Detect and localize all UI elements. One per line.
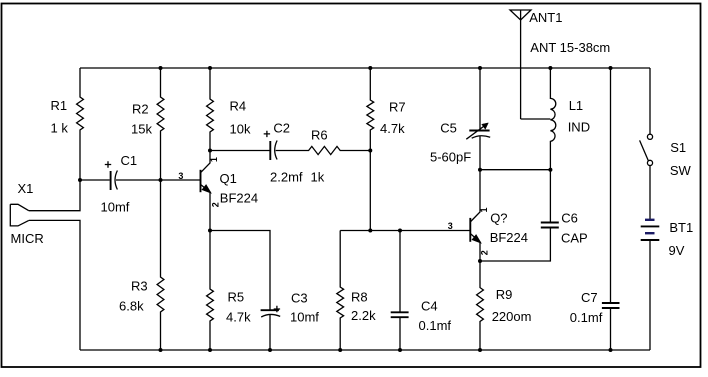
svg-text:0.1mf: 0.1mf [570,310,603,325]
node junction at (610.5,68) [609,66,613,70]
node junction at (210,150.5) [208,149,212,153]
svg-text:C3: C3 [291,290,308,305]
switch S1 [640,68,653,220]
wire node(210,150.5) to C2 [210,150,270,152]
node junction at (370.3,68) [368,66,372,70]
svg-text:ANT 15-38cm: ANT 15-38cm [530,40,610,55]
svg-text:1: 1 [209,157,219,162]
node junction at (210,350) [208,348,212,352]
svg-text:1k: 1k [311,170,325,185]
svg-text:C2: C2 [273,121,290,136]
wire X1 top lead [29,180,80,211]
capacitor C7 [602,68,620,350]
node junction at (610.5,350) [609,348,613,352]
svg-text:4.7k: 4.7k [380,121,405,136]
svg-text:C7: C7 [581,290,598,305]
wire bottom ground rail [80,349,650,351]
svg-text:2.2mf: 2.2mf [270,170,303,185]
wire C1 to node(160.5,180) [116,179,161,181]
svg-text:R5: R5 [228,289,245,304]
svg-text:R6: R6 [311,127,328,142]
svg-text:10mf: 10mf [290,309,319,324]
svg-text:1 k: 1 k [51,121,69,136]
resistor R9 [477,261,484,350]
wire top supply rail [80,67,650,69]
node junction at (160.5,180) [159,178,163,182]
resistor R6 [276,146,371,154]
svg-text:S1: S1 [670,140,686,155]
node junction at (160.5,68) [159,66,163,70]
svg-text:BT1: BT1 [669,220,693,235]
battery BT1 [641,220,660,350]
svg-text:R9: R9 [496,287,513,302]
node junction at (370.3,230.5) [368,229,372,233]
svg-text:C4: C4 [421,298,438,313]
resistor R4 [207,68,214,151]
wire R7 column down to base row [369,151,371,231]
node junction at (160.5,350) [159,348,163,352]
svg-text:Q1: Q1 [220,171,237,186]
svg-text:10k: 10k [230,121,251,136]
antenna ANT1 [510,10,550,119]
wire tank node row C5 to L1 [480,169,550,171]
svg-text:6.8k: 6.8k [119,298,144,313]
transistor Q1 [201,151,212,231]
microphone X1 symbol [10,204,29,226]
node junction at (480,261) [478,259,482,263]
svg-text:4.7k: 4.7k [226,309,251,324]
wire base row R8 to Q2 [340,230,470,232]
svg-text:220om: 220om [492,309,532,324]
svg-text:SW: SW [670,163,692,178]
svg-text:R7: R7 [389,99,406,114]
svg-text:C1: C1 [121,153,138,168]
svg-text:3: 3 [448,221,453,231]
resistor R1 [77,68,84,180]
node junction at (480,68) [478,66,482,70]
node junction at (480,350) [478,348,482,352]
node junction at (480,169.7) [478,168,482,172]
svg-text:3: 3 [178,171,183,181]
svg-text:2: 2 [480,250,490,255]
node junction at (210,230.5) [208,229,212,233]
wire Q1 base from node(160.5,180) [161,179,201,181]
inductor L1 [550,68,555,170]
capacitor C5 (variable) [466,68,490,170]
capacitor C1 (electrolytic) [105,161,118,190]
svg-text:R8: R8 [351,289,368,304]
node junction at (550.4,169.7) [548,168,552,172]
resistor R7 [367,68,374,151]
svg-text:0.1mf: 0.1mf [419,318,452,333]
capacitor C4 [391,231,409,351]
wire Q1 emitter node to C3 [210,231,270,311]
svg-text:MICR: MICR [11,231,44,246]
node junction at (80,180) [78,178,82,182]
svg-text:R1: R1 [51,98,68,113]
resistor R5 [207,231,214,351]
svg-text:CAP: CAP [561,231,588,246]
svg-text:10mf: 10mf [101,200,130,215]
svg-text:2: 2 [211,202,221,207]
capacitor C2 (electrolytic) [264,131,277,160]
wire X1 bottom lead [29,220,80,350]
capacitor C3 (electrolytic) [261,306,281,317]
resistor R2 [157,68,164,180]
svg-text:C5: C5 [440,120,457,135]
svg-text:IND: IND [568,120,590,135]
svg-text:R3: R3 [131,278,148,293]
wire C3 to ground rail [269,315,271,350]
svg-text:BF224: BF224 [220,191,258,206]
transistor Q2 [470,170,481,261]
wire node(80,180) to C1 [80,179,110,181]
resistor R8 [337,231,344,351]
node junction at (400,230.5) [398,229,402,233]
svg-text:X1: X1 [18,181,34,196]
node junction at (550.4,68) [548,66,552,70]
svg-text:15k: 15k [131,121,152,136]
node junction at (370.3,150.5) [368,149,372,153]
svg-text:ANT1: ANT1 [529,10,562,25]
svg-text:1: 1 [479,207,489,212]
resistor R3 [157,180,164,350]
svg-text:R2: R2 [132,102,149,117]
capacitor C6 [480,170,559,261]
svg-text:R4: R4 [230,98,247,113]
node junction at (400,350) [398,348,402,352]
svg-text:Q?: Q? [490,211,507,226]
svg-text:9V: 9V [669,243,685,258]
svg-text:5-60pF: 5-60pF [430,149,471,164]
node junction at (210,68) [208,66,212,70]
svg-text:BF224: BF224 [490,230,528,245]
svg-text:C6: C6 [561,210,578,225]
svg-text:2.2k: 2.2k [351,308,376,323]
node junction at (340.2,350) [338,348,342,352]
svg-text:L1: L1 [569,98,583,113]
node junction at (270,350) [268,348,272,352]
